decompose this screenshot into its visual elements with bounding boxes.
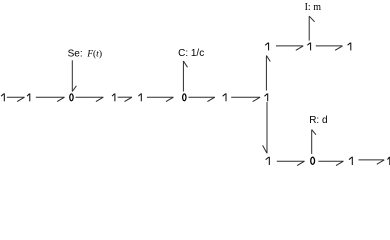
junction 1 J4	[112, 93, 115, 101]
svg-text:R: d: R: d	[309, 115, 327, 126]
junction 0 J13 bottom row	[311, 157, 315, 164]
junction 1 J12 bottom row left	[266, 157, 270, 165]
bond J13 to R	[312, 130, 316, 154]
junction 1 J15 right edge	[388, 157, 390, 165]
bond J7 to J8	[231, 97, 260, 101]
bond J8 down to J12	[263, 102, 267, 153]
junction 0 J6	[183, 94, 186, 101]
source Se: F(t) label	[68, 49, 102, 60]
bond J10 to J11	[316, 46, 343, 50]
junction 1 J2	[27, 93, 30, 101]
resistor R: d label	[309, 115, 327, 126]
junction 1 J14 bottom row	[349, 157, 352, 165]
junction 1 J7	[223, 93, 226, 101]
junction 0 J3	[70, 94, 73, 101]
svg-text:I: m: I: m	[305, 2, 322, 13]
bond J2 to J3	[36, 97, 65, 101]
junction 1 J1	[1, 93, 4, 101]
junction 1 J8 central	[265, 93, 268, 101]
bond J10 to I	[309, 16, 314, 40]
bond J6 to C	[183, 61, 187, 92]
bond J5 to J6	[147, 97, 173, 101]
bond J4 to J5	[118, 97, 132, 101]
bond J13 to J14	[318, 161, 343, 165]
bond Se to J3	[72, 60, 76, 91]
junction 1 J5	[138, 93, 141, 101]
bond J1 to J2	[7, 97, 25, 101]
svg-text:C: 1/c: C: 1/c	[178, 48, 204, 59]
inertia I: m label	[305, 2, 322, 13]
bond J12 to J13	[277, 161, 305, 165]
bond J14 to J15	[359, 160, 385, 164]
bond J3 to J4	[76, 97, 104, 101]
junction 1 J10 top row middle	[307, 43, 310, 51]
junction 1 J9 top row left	[265, 43, 268, 51]
bond J6 to J7	[189, 97, 215, 101]
bond J9 to J10	[276, 46, 303, 50]
junction 1 J11 top row right	[348, 43, 351, 51]
capacitor C: 1/c label	[178, 48, 204, 59]
bond J8 up to J9	[266, 56, 270, 91]
